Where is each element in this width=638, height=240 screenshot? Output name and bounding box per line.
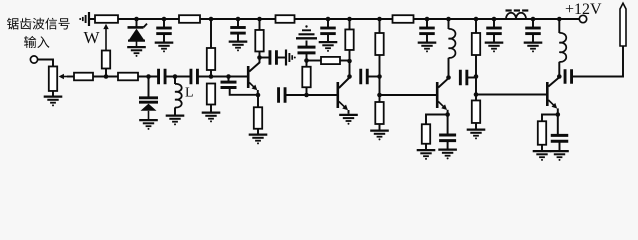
wire R10 to varactor node	[138, 76, 158, 78]
ground right of Q1 cap	[285, 50, 287, 66]
transistor Q4 base bar	[546, 82, 549, 106]
node rail-bias1	[209, 17, 214, 22]
wire W bias column	[105, 68, 107, 77]
wire R3 stems	[259, 19, 261, 30]
ground below stage3 bias	[370, 129, 389, 131]
node Q1 collector	[257, 55, 262, 60]
wire Q1 collector to cap	[260, 57, 270, 59]
ground below Q3 emitter cap	[438, 148, 457, 150]
node bias1	[209, 74, 214, 79]
transistor Q4 collector	[548, 77, 559, 86]
potentiometer input wiper arrow	[61, 76, 70, 78]
wire zener stem	[136, 19, 138, 27]
wire Q3 emitter left	[426, 115, 448, 125]
resistor R10 series input	[118, 73, 138, 81]
node rail-cap4	[425, 17, 430, 22]
wire R6 stems	[379, 19, 381, 33]
svg-text:L: L	[185, 86, 194, 101]
resistor Q1 emitter	[257, 95, 259, 107]
capacitor Q1 collector bypass	[269, 50, 272, 65]
capacitor coupling Q1-Q2	[277, 87, 280, 103]
ground below stage4 bias	[467, 128, 486, 130]
ground inverted above cap	[296, 37, 317, 39]
wire C2 to bias node	[198, 76, 247, 78]
capacitor Q3 emitter bypass	[447, 115, 449, 135]
transistor Q2 base bar	[336, 82, 339, 108]
ground below cap3	[319, 41, 338, 43]
wire cap to node4	[467, 77, 476, 79]
capacitor rail bypass 4	[426, 19, 428, 28]
inductor choke Q3 collector	[449, 29, 456, 58]
varactor diode D2	[139, 96, 158, 99]
node W-bias	[104, 74, 109, 79]
wire feedback to collector column	[340, 60, 350, 62]
resistor rail R7	[393, 15, 414, 23]
resistor rail R1	[179, 15, 200, 23]
zener diode D1	[128, 26, 144, 29]
resistor Q3 emitter	[422, 124, 430, 144]
wire R8 stems	[475, 19, 477, 33]
wire coupling to node2	[285, 94, 307, 96]
wire bias column 1	[210, 19, 212, 48]
ground below varactor	[139, 119, 158, 121]
node Q1 emitter	[256, 93, 261, 98]
ground below cap2	[229, 40, 248, 42]
potentiometer W wiper arrow	[105, 26, 107, 51]
capacitor rail bypass 1	[163, 19, 165, 28]
ground below cap5	[485, 41, 504, 43]
capacitor rail bypass 6	[532, 19, 534, 28]
node rail-R8	[474, 17, 479, 22]
inductor choke Q4 collector	[559, 33, 566, 62]
wire wiper to R9	[67, 76, 74, 78]
wire Q3 base	[380, 94, 437, 96]
wire node3 down	[379, 77, 381, 96]
resistor stage3 lower bias	[379, 95, 381, 102]
ground below zener	[127, 46, 146, 48]
wire choke1 top stem	[448, 19, 450, 29]
resistor below bias node	[207, 84, 215, 105]
capacitor tank C2	[189, 69, 192, 85]
node Q2 collector	[347, 74, 352, 79]
node rail-choke1	[446, 17, 451, 22]
wire Q4 Re stem	[541, 145, 543, 150]
wire pot bottom stem	[52, 91, 54, 96]
node rail-R6	[377, 17, 382, 22]
ground chassis left of pot W	[88, 12, 90, 26]
resistor Q4 emitter	[538, 121, 546, 145]
capacitor Q3 output	[459, 70, 462, 86]
resistor stage3 upper bias	[375, 33, 383, 55]
node rail-zener	[134, 17, 139, 22]
transistor Q3 emitter	[438, 102, 445, 109]
svg-text:+12V: +12V	[565, 1, 602, 18]
resistor Q2 collector load	[345, 29, 353, 50]
resistor Q2 bias vertical	[306, 88, 308, 96]
node rail-cap5	[492, 17, 497, 22]
resistor Q1 collector load	[255, 30, 263, 52]
capacitor to inverted ground	[306, 54, 308, 61]
transistor Q1 collector	[249, 58, 259, 72]
transistor Q4 emitter	[548, 100, 555, 107]
terminal input circle	[30, 56, 37, 63]
inductor ferrite bead	[506, 13, 526, 19]
ground below cap4	[418, 41, 437, 43]
potentiometer input body	[49, 66, 57, 91]
capacitor tank C1	[157, 69, 160, 85]
wire Q2 base	[307, 94, 337, 96]
wire Q4 base	[476, 94, 546, 96]
potentiometer W body	[95, 15, 118, 23]
wire L top stem	[174, 77, 176, 85]
ground below Q4 emitter resistor	[533, 150, 552, 152]
ground below Q4 emitter cap	[550, 150, 569, 152]
node rail-cap6	[531, 17, 536, 22]
node Q4 collector	[557, 74, 562, 79]
ground below bias resistor	[202, 111, 221, 113]
transistor Q3 base bar	[436, 82, 439, 108]
svg-text:W: W	[84, 28, 101, 47]
node stage4 top	[474, 74, 479, 79]
transistor Q1 base bar	[247, 66, 250, 88]
wire node to feedback resistor	[307, 60, 322, 62]
node rail-cap2	[236, 17, 241, 22]
node tank L	[173, 74, 178, 79]
wire C1 to L node	[165, 76, 191, 78]
text 锯齿波信号	[7, 18, 70, 30]
wire Q4 emitter left	[542, 115, 558, 122]
node rail-R5	[347, 17, 352, 22]
inductor L tank	[175, 84, 182, 108]
transistor Q3 collector	[438, 78, 448, 87]
wire node4 down	[475, 77, 477, 95]
node rail-cap3	[326, 17, 331, 22]
resistor R9 series input	[74, 73, 93, 81]
wire input to pot	[38, 60, 53, 67]
resistor stage4 lower bias	[475, 95, 477, 101]
resistor below W wiper	[102, 51, 110, 69]
antenna	[620, 3, 626, 46]
transistor Q2 collector	[339, 78, 350, 89]
wire cap to ground right	[276, 57, 285, 59]
ground below cap1	[155, 41, 174, 43]
capacitor base-emitter Q1	[228, 77, 230, 82]
node rail-R3	[257, 17, 262, 22]
node stage3 base	[377, 93, 382, 98]
ground below L	[166, 114, 185, 116]
capacitor rail bypass 5	[493, 19, 495, 28]
wire choke2 top stem	[558, 19, 560, 33]
wire R9 to node	[93, 76, 118, 78]
wire choke1 bottom stem	[448, 58, 450, 78]
node Q2 base bias	[304, 93, 309, 98]
text 输入	[24, 36, 49, 48]
node BE cap	[226, 74, 231, 79]
resistor bias upper 1	[207, 48, 215, 70]
ground below cap6	[524, 41, 543, 43]
node rail-cap1	[162, 17, 167, 22]
varactor diode stem	[148, 77, 150, 97]
node Q3 emitter	[445, 112, 450, 117]
capacitor rail bypass 2	[237, 19, 239, 28]
ground below input pot	[44, 95, 63, 97]
transistor Q2 emitter	[339, 102, 347, 109]
wire cap to node3	[367, 76, 379, 78]
node bias top	[304, 58, 309, 63]
capacitor Q4 emitter bypass	[557, 115, 559, 135]
resistor rail R4	[276, 15, 295, 23]
capacitor rail bypass 3	[327, 19, 329, 28]
node Q4 emitter	[556, 112, 561, 117]
transistor Q1 emitter	[249, 83, 256, 89]
wire output to antenna	[573, 46, 624, 77]
capacitor coupling Q2-Q3	[359, 69, 362, 85]
node stage3 top	[377, 74, 382, 79]
terminal +12V circle	[579, 15, 586, 22]
wire L bottom stem	[174, 107, 176, 114]
capacitor output	[564, 69, 567, 84]
wire choke2 bottom stem	[558, 62, 560, 77]
ground below Q1 emitter resistor	[249, 133, 268, 135]
resistor feedback Q2	[321, 57, 340, 64]
node stage4 base	[474, 92, 479, 97]
node feedback-collector	[347, 59, 352, 64]
node rail-choke2	[557, 17, 562, 22]
ground below Q3 emitter resistor	[417, 149, 436, 151]
wire R5 stems	[349, 19, 351, 30]
wire bias lower stem	[210, 105, 212, 112]
node Q3 collector	[446, 75, 451, 80]
resistor stage4 upper bias	[472, 33, 480, 55]
wire Q3 Re stem	[425, 144, 427, 149]
node varactor	[146, 74, 151, 79]
wire top rail	[88, 18, 579, 20]
ground below Q2 emitter	[339, 114, 358, 116]
